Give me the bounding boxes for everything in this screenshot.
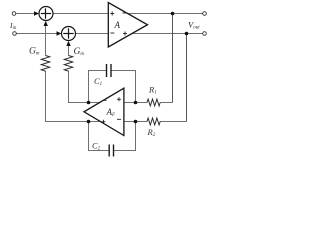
pin sign: AF -in (bottom right) <box>117 118 121 120</box>
wire: input terminal 1 to summer S1 <box>16 13 35 15</box>
terminal Vout- <box>203 32 207 36</box>
node: AF top input junction <box>134 101 138 105</box>
node: AF top output junction <box>87 101 91 105</box>
capacitor C1 <box>107 64 112 77</box>
op-amp AF (feedback amplifier, points left) <box>84 88 124 135</box>
pin sign: A -out (top) <box>122 12 126 14</box>
wire: amp A -out to Vout+ terminal <box>127 13 203 15</box>
arrow into S2 from left <box>57 31 62 35</box>
pin sign: AF +out (bottom left) <box>102 120 106 124</box>
wire: C2 loop right leg <box>114 122 136 151</box>
node: bottom output junction <box>185 32 189 36</box>
node: AF bottom input junction <box>134 120 138 124</box>
arrow into S1 from left <box>34 11 39 15</box>
wire: Gm1 resistor top lead up toward summer S1 <box>45 26 47 56</box>
wire: R2 right lead to vertical <box>160 121 186 123</box>
summing junction S1 <box>39 7 53 21</box>
wire: C1 loop right leg <box>111 71 135 103</box>
wire: summer S1 to amp A +in <box>53 13 108 15</box>
resistor R1 <box>147 99 160 106</box>
wire: C1 loop left leg <box>89 71 107 103</box>
wire: vertical feedback from top output node down to R1 <box>172 14 174 103</box>
pin sign: A -in <box>110 32 114 34</box>
pin sign: AF -out (top left) <box>103 99 107 101</box>
wire: summer S2 to amp A -in <box>76 33 109 35</box>
wire: input terminal Iin to summer S2 <box>16 33 57 35</box>
terminal input 2 (Iin) <box>13 32 17 36</box>
pin sign: A +in <box>110 12 114 16</box>
svg-text:A: A <box>114 20 121 30</box>
wire: Gm2 resistor top lead up toward summer S2 <box>68 45 70 56</box>
pin sign: A +out (bottom) <box>123 32 127 36</box>
op-amp A (fully differential, main amplifier) <box>108 3 147 48</box>
resistor Gm2 (transconductor) <box>64 56 72 72</box>
arrow into S1 from below <box>44 21 48 26</box>
wire: amp AF top output rail to Gm2 branch corner <box>69 71 102 103</box>
wire: amp AF bottom output rail to Gm1 branch corner <box>46 71 102 122</box>
arrow into S2 from below <box>66 41 70 46</box>
wire: amp AF top input lead to R1 <box>124 102 147 104</box>
node: AF bottom output junction <box>87 120 91 124</box>
wire: vertical feedback from bottom output node down to R2 <box>186 34 188 122</box>
summing junction S2 <box>62 27 76 41</box>
wire: C2 loop left leg <box>89 122 110 151</box>
pin sign: AF +in (top right) <box>117 97 121 101</box>
capacitor C2 <box>109 145 113 157</box>
terminal input 1 <box>12 12 16 16</box>
terminal Vout+ <box>203 12 207 16</box>
resistor Gm1 (transconductor) <box>41 56 49 72</box>
wire: R1 right lead to vertical <box>160 102 172 104</box>
wire: amp A +out to Vout- terminal <box>131 33 203 35</box>
resistor R2 <box>147 118 160 125</box>
wire: amp AF bottom input lead to R2 <box>124 121 147 123</box>
node: top output junction <box>171 12 175 16</box>
